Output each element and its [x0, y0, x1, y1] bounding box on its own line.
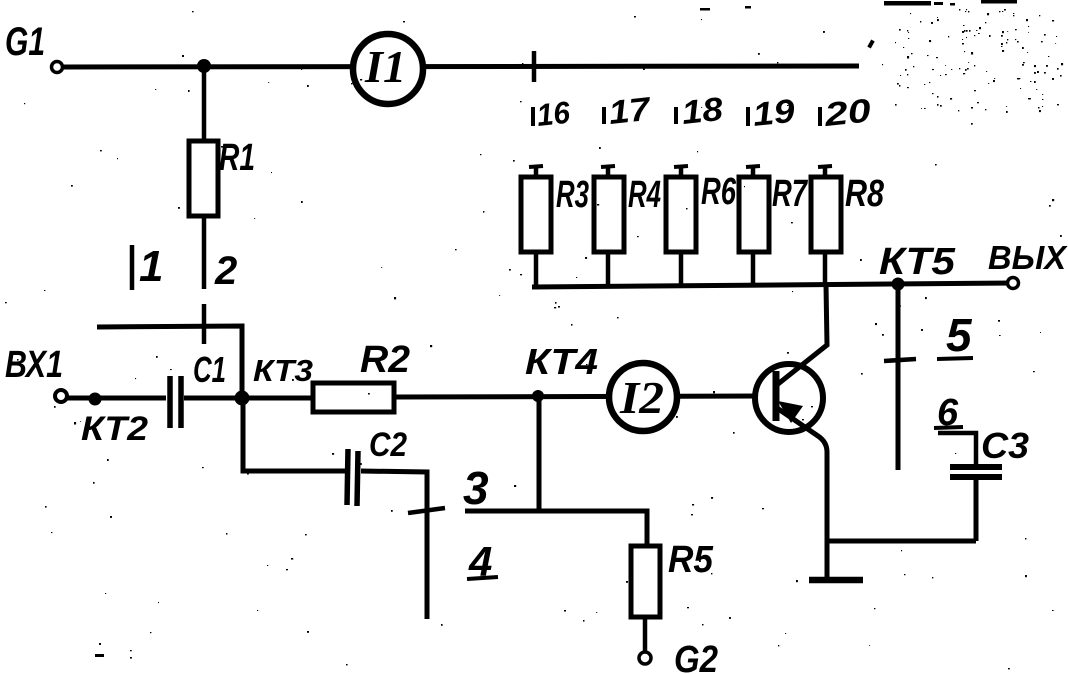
- svg-text:С3: С3: [981, 425, 1029, 466]
- svg-text:С2: С2: [369, 426, 407, 464]
- svg-text:R4: R4: [628, 174, 661, 216]
- svg-text:ВЫХ: ВЫХ: [988, 239, 1068, 276]
- svg-text:КТ5: КТ5: [879, 241, 956, 283]
- svg-text:R6: R6: [701, 171, 737, 213]
- svg-text:5: 5: [946, 309, 973, 361]
- svg-text:2: 2: [214, 249, 237, 293]
- svg-text:R7: R7: [772, 173, 808, 215]
- svg-text:R3: R3: [556, 174, 589, 216]
- svg-text:R5: R5: [668, 539, 714, 581]
- svg-text:18: 18: [680, 90, 725, 131]
- svg-text:R1: R1: [219, 137, 255, 179]
- svg-text:КТ2: КТ2: [81, 410, 148, 448]
- svg-text:КТ4: КТ4: [525, 341, 598, 382]
- svg-text:I2: I2: [619, 372, 664, 423]
- svg-text:I1: I1: [364, 41, 406, 92]
- svg-text:КТ3: КТ3: [253, 353, 313, 388]
- svg-text:20: 20: [822, 91, 874, 133]
- svg-text:G2: G2: [674, 639, 718, 674]
- svg-text:G1: G1: [5, 20, 45, 64]
- svg-text:16: 16: [535, 95, 572, 133]
- svg-text:1: 1: [139, 242, 163, 291]
- svg-text:R2: R2: [360, 339, 410, 381]
- svg-text:17: 17: [607, 90, 653, 131]
- svg-text:3: 3: [463, 462, 489, 514]
- svg-text:19: 19: [751, 92, 797, 133]
- svg-text:ВХ1: ВХ1: [5, 344, 63, 386]
- svg-text:R8: R8: [845, 173, 885, 215]
- svg-text:С1: С1: [193, 349, 226, 390]
